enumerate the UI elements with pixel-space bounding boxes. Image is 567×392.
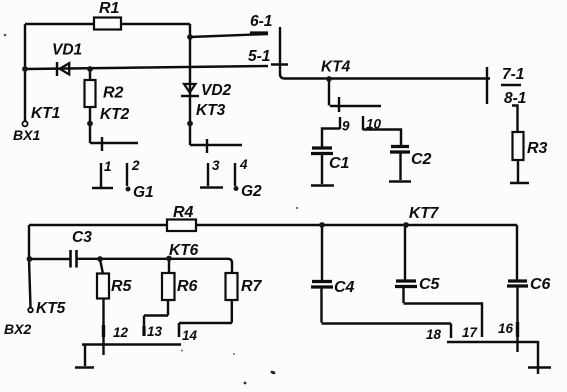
svg-text:9: 9 bbox=[342, 119, 350, 134]
svg-text:C2: C2 bbox=[411, 151, 432, 168]
svg-text:KT3: KT3 bbox=[196, 102, 226, 119]
svg-text:C4: C4 bbox=[334, 279, 355, 296]
svg-text:16: 16 bbox=[498, 321, 514, 336]
svg-text:R5: R5 bbox=[111, 278, 133, 295]
svg-text:C1: C1 bbox=[329, 155, 350, 172]
svg-text:KT5: KT5 bbox=[36, 300, 66, 317]
svg-text:6-1: 6-1 bbox=[250, 13, 272, 30]
svg-text:R4: R4 bbox=[173, 204, 194, 221]
svg-text:BX1: BX1 bbox=[13, 127, 40, 143]
svg-text:KT1: KT1 bbox=[31, 105, 60, 122]
svg-text:3: 3 bbox=[212, 158, 220, 173]
svg-text:VD1: VD1 bbox=[52, 42, 82, 59]
svg-text:18: 18 bbox=[426, 327, 442, 342]
svg-text:VD2: VD2 bbox=[201, 82, 232, 99]
svg-text:C3: C3 bbox=[72, 229, 92, 246]
svg-text:KT6: KT6 bbox=[169, 242, 199, 259]
svg-text:R1: R1 bbox=[99, 0, 120, 17]
svg-text:G2: G2 bbox=[241, 183, 262, 200]
svg-text:BX2: BX2 bbox=[4, 321, 31, 337]
svg-text:R3: R3 bbox=[527, 140, 548, 157]
svg-text:17: 17 bbox=[462, 325, 479, 340]
svg-text:8-1: 8-1 bbox=[504, 90, 526, 107]
svg-text:14: 14 bbox=[182, 328, 198, 343]
svg-text:7-1: 7-1 bbox=[502, 66, 524, 83]
svg-text:13: 13 bbox=[147, 324, 163, 339]
svg-text:R7: R7 bbox=[241, 278, 263, 295]
svg-text:R2: R2 bbox=[103, 85, 124, 102]
svg-text:10: 10 bbox=[366, 117, 382, 132]
svg-text:12: 12 bbox=[113, 325, 129, 340]
svg-text:R6: R6 bbox=[177, 278, 198, 295]
svg-text:KT7: KT7 bbox=[409, 205, 440, 222]
svg-text:1: 1 bbox=[104, 159, 112, 174]
svg-text:4: 4 bbox=[239, 157, 248, 172]
svg-text:2: 2 bbox=[131, 158, 140, 173]
svg-text:KT2: KT2 bbox=[100, 106, 130, 123]
svg-text:G1: G1 bbox=[133, 184, 154, 201]
svg-text:KT4: KT4 bbox=[321, 59, 351, 76]
svg-text:5-1: 5-1 bbox=[248, 48, 270, 65]
svg-text:C5: C5 bbox=[419, 276, 441, 293]
svg-text:C6: C6 bbox=[530, 276, 551, 293]
